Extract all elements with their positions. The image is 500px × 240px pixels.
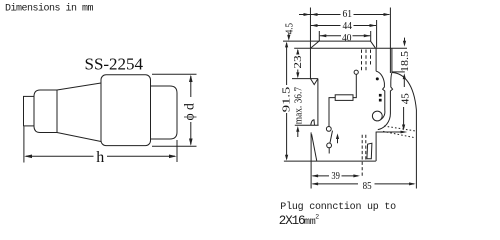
dim h left extension <box>23 127 25 163</box>
bottom wedge detail <box>367 143 372 159</box>
cable direction dashed line lower <box>383 131 416 137</box>
dim phi-d bottom extension <box>152 145 197 147</box>
dim 44 line <box>311 25 376 27</box>
circuit: top contact circle <box>354 70 358 74</box>
channel bottom line with arrow <box>376 131 405 133</box>
dim 85 arrows <box>312 182 416 185</box>
svg-text:SS-2254: SS-2254 <box>85 55 144 74</box>
tube left wall <box>383 83 385 111</box>
plug boot taper bottom <box>57 133 101 142</box>
dim 40 extensions <box>319 31 370 41</box>
switch bottom circle <box>327 143 332 148</box>
svg-text:2: 2 <box>315 213 319 220</box>
foot extension line <box>310 132 312 188</box>
svg-text:2X16: 2X16 <box>279 214 305 227</box>
inner wall right lower <box>375 132 377 162</box>
svg-text:ϕ d: ϕ d <box>182 103 197 120</box>
svg-text:Dimensions in mm: Dimensions in mm <box>5 3 94 15</box>
bottom line with left extension <box>284 160 376 162</box>
outer bulge arc <box>392 73 416 111</box>
right wall double line <box>390 8 392 74</box>
dim phi-d top extension <box>152 73 197 75</box>
plug cable end rectangle <box>24 96 35 126</box>
right outer wall + 85 extension <box>415 110 417 189</box>
plug front cap <box>151 86 178 139</box>
plug boot taper top <box>57 83 101 90</box>
dim phi-d arrows <box>189 75 193 146</box>
svg-text:44: 44 <box>343 20 353 32</box>
housing shoulder line (with extensions) <box>294 47 407 49</box>
svg-text:45: 45 <box>400 93 411 104</box>
dim 40 arrows <box>320 34 371 37</box>
switch direction arrow <box>337 136 339 144</box>
bend outer arc <box>378 113 391 130</box>
dim 61 arrows <box>304 13 391 16</box>
dim 18.5 bottom arrow <box>403 77 405 88</box>
plug body <box>101 75 151 146</box>
dim 91.5 arrows <box>285 42 288 161</box>
V notch <box>311 79 318 85</box>
dim h line <box>26 155 175 157</box>
dim 23 arrows <box>296 49 299 78</box>
svg-text:91.5: 91.5 <box>282 87 293 113</box>
bend inner arc <box>381 111 385 120</box>
wire below switch <box>328 148 330 154</box>
dim 40 line <box>320 35 370 37</box>
housing plateau top line (with left extension) <box>283 40 371 42</box>
svg-text:61: 61 <box>343 8 353 20</box>
dim 85 line <box>313 183 415 185</box>
tube right wall <box>390 83 392 113</box>
left wall lower <box>317 79 319 126</box>
switch top circle <box>326 126 331 131</box>
angle 45 arrow <box>403 107 405 128</box>
step line right <box>392 71 405 73</box>
dim 39 arrows <box>312 174 361 177</box>
switch blade <box>330 131 333 144</box>
small corner arc <box>311 120 315 126</box>
funnel right curve <box>391 73 392 83</box>
dashed hidden lines bottom <box>362 135 366 178</box>
terminal circle <box>372 111 382 121</box>
svg-text:mm: mm <box>304 217 316 227</box>
plug ferrule <box>34 90 57 133</box>
dim 39 line <box>313 175 359 177</box>
ledge 2 <box>295 124 319 126</box>
dim 91.5 line <box>286 43 288 159</box>
svg-text:23: 23 <box>293 55 304 68</box>
cable direction dashed line upper <box>384 126 416 131</box>
dim max36.7 bottom arrow <box>297 129 299 137</box>
svg-text:Plug connction up to: Plug connction up to <box>280 201 396 213</box>
svg-text:40: 40 <box>342 32 352 44</box>
dim h arrows <box>24 155 176 159</box>
dim phi-d line <box>190 76 192 145</box>
wire from contact to fuse <box>353 74 356 97</box>
right chamfer <box>371 41 376 48</box>
svg-text:max. 36.7: max. 36.7 <box>294 87 305 124</box>
svg-text:39: 39 <box>331 171 340 182</box>
left chamfer <box>311 41 320 48</box>
dim 44 right extension <box>376 20 378 48</box>
terminal dots <box>376 77 379 80</box>
wire fuse to switch <box>329 98 335 127</box>
dim 18.5 top arrow <box>404 38 406 45</box>
dim 44 arrows <box>311 24 376 27</box>
dim h right extension <box>176 140 178 162</box>
svg-text:4.5: 4.5 <box>285 23 296 34</box>
ledge notch level <box>292 78 318 80</box>
svg-text:h: h <box>96 149 104 166</box>
dim 23 line <box>297 50 299 77</box>
svg-text:18.5: 18.5 <box>400 51 411 72</box>
dashed terminal hole lines top <box>362 50 371 71</box>
fuse rectangle <box>335 95 353 101</box>
dim 61 line <box>299 14 390 16</box>
funnel left curve <box>376 71 384 83</box>
svg-text:85: 85 <box>363 181 372 192</box>
left wall upper + 61 extension <box>309 8 311 79</box>
inner wall right upper <box>375 48 377 71</box>
foot diagonal <box>312 134 317 161</box>
dim 4.5 arrow <box>288 33 290 39</box>
